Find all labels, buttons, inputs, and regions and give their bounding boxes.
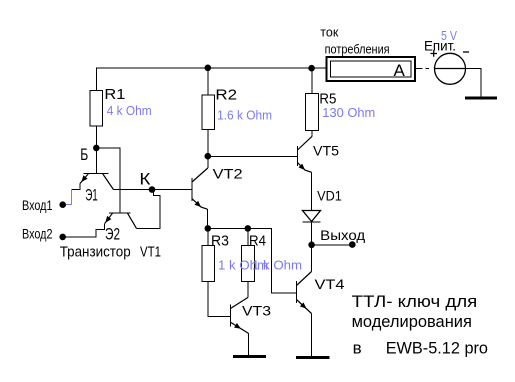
svg-text:VT2: VT2 (213, 166, 243, 182)
svg-text:VT3: VT3 (242, 302, 271, 318)
node B junction dot (93, 145, 100, 152)
wire emitter node row to VT4 base (208, 228, 297, 292)
node R2-VT2-VT5 (205, 153, 212, 160)
transistor VT3 (231, 298, 249, 334)
wire VT5 collector stub (311, 131, 313, 137)
resistor R2 (202, 95, 214, 130)
svg-text:Выход: Выход (320, 227, 365, 243)
svg-text:R3: R3 (211, 232, 229, 249)
wire top supply rail (97, 68, 327, 90)
ground under source (465, 97, 497, 100)
wire VT3 emitter to ground (247, 333, 249, 355)
resistor R5 (306, 94, 319, 131)
wire VT5 emitter to diode (311, 172, 313, 210)
wire R3 bottom to VT3 base (208, 281, 231, 316)
svg-text:R2: R2 (215, 87, 237, 104)
svg-text:Б: Б (80, 145, 88, 164)
svg-text:моделирования: моделирования (352, 312, 472, 331)
diode VD1 (303, 211, 321, 223)
transistor VT5 (298, 136, 313, 172)
svg-text:R1: R1 (104, 86, 125, 103)
node K junction dot (149, 186, 156, 193)
wire VT4 emitter to ground (311, 314, 313, 357)
wire node B to VT1b base (96, 148, 120, 213)
svg-text:Вход2: Вход2 (22, 226, 53, 242)
svg-text:VT5: VT5 (313, 142, 339, 158)
node above R5 (308, 65, 315, 72)
svg-text:Транзистор: Транзистор (60, 244, 131, 261)
svg-text:1.6 k Ohm: 1.6 k Ohm (217, 108, 272, 123)
wire R4 bottom to VT3 collector (247, 281, 249, 297)
wire ammeter to source (415, 69, 481, 98)
output terminal dot (349, 241, 356, 248)
svg-text:130 Ohm: 130 Ohm (322, 105, 375, 120)
svg-text:потребления: потребления (325, 42, 390, 57)
wire R5 top stub (311, 68, 313, 94)
svg-text:VD1: VD1 (317, 188, 342, 204)
svg-text:К: К (139, 170, 150, 189)
wire VT1b emitter to input 2 (64, 224, 105, 237)
wire node K line (114, 189, 193, 191)
ammeter A (327, 57, 416, 81)
wire blue segment to input 1 (66, 190, 71, 205)
input 1 terminal dot (59, 201, 66, 208)
wire VT1a emitter tail (71, 184, 80, 190)
svg-text:VT4: VT4 (315, 276, 345, 292)
wire R1 bottom stub (95, 126, 97, 148)
svg-text:Э2: Э2 (105, 224, 120, 243)
transistor VT4 (297, 272, 312, 314)
transistor VT2 (192, 168, 208, 209)
svg-text:в: в (353, 339, 362, 358)
ground under VT3 (233, 355, 266, 358)
wire diode to output node (311, 222, 313, 245)
resistor R3 (202, 246, 215, 282)
svg-text:R4: R4 (249, 232, 266, 249)
node VT2 emitter / R3 (205, 225, 212, 232)
wire R4 top stub (247, 228, 249, 245)
svg-text:EWB-5.12 pro: EWB-5.12 pro (386, 339, 488, 358)
wire VT1b collector to node K (137, 189, 160, 228)
svg-text:4 k Ohm: 4 k Ohm (107, 103, 152, 118)
svg-text:ток: ток (320, 24, 338, 39)
input 2 terminal dot (59, 234, 66, 241)
wire node B to VT1a base (95, 148, 97, 174)
wire VT5 base wire (208, 155, 298, 157)
wire R2 bottom stub (207, 130, 209, 157)
svg-text:1 k Ohm: 1 k Ohm (252, 258, 302, 273)
voltage source Epit 5V (431, 50, 470, 84)
node VD1-VT4 output (308, 242, 315, 249)
node above R2 (205, 65, 212, 72)
ground under VT4 (296, 356, 329, 359)
wire output (312, 244, 353, 246)
svg-text:Вход1: Вход1 (22, 197, 53, 213)
resistor R4 (242, 246, 255, 282)
svg-text:5 V: 5 V (441, 28, 457, 43)
svg-text:VT1: VT1 (140, 244, 161, 261)
wire R2 top stub (207, 68, 209, 95)
resistor R1 (90, 91, 103, 126)
transistor VT1 lower half, emitter E2 (105, 213, 137, 228)
svg-text:Э1: Э1 (85, 185, 98, 204)
transistor VT1 upper half, emitter E1 (80, 174, 114, 190)
wire output node to VT4 collector (311, 245, 313, 272)
node R4 top (245, 225, 252, 232)
wire VT2 emitter stub (206, 209, 208, 228)
wire VT2 collector stub (207, 158, 209, 168)
svg-text:A: A (394, 61, 406, 80)
svg-text:ТТЛ- ключ для: ТТЛ- ключ для (352, 292, 478, 311)
wire R3 top stub (207, 228, 209, 245)
